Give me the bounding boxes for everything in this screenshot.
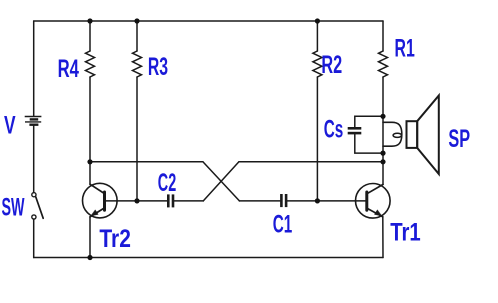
switch SW xyxy=(32,193,43,220)
wire R3 bottom to Tr2 base node xyxy=(136,77,138,201)
battery V xyxy=(25,117,42,125)
wire battery to switch xyxy=(33,126,35,193)
wire R1 top lead xyxy=(382,21,384,51)
junction dot Tr2 base R3 node xyxy=(134,198,139,203)
svg-text:C1: C1 xyxy=(273,210,293,238)
svg-text:R3: R3 xyxy=(148,53,168,81)
resistor R3 xyxy=(133,51,142,77)
resistor R2 xyxy=(313,51,322,77)
speaker terminal hole xyxy=(393,133,401,137)
resistor R4 xyxy=(86,51,95,77)
wire Cs top loop xyxy=(355,116,383,127)
wire cross diagonal lower-left to upper-right xyxy=(203,162,239,201)
svg-text:SP: SP xyxy=(448,125,470,153)
junction dot top rail R2 xyxy=(315,18,320,23)
svg-text:R2: R2 xyxy=(321,51,342,79)
transistor Tr1 xyxy=(356,184,391,219)
wire lower-right through C1 to Tr1 base xyxy=(239,200,280,202)
wire upper-right to Tr1 collector node xyxy=(239,161,383,163)
svg-text:Cs: Cs xyxy=(324,115,344,143)
speaker SP horn xyxy=(417,96,439,175)
speaker SP coil box xyxy=(407,121,418,148)
junction dot top rail R3 xyxy=(134,18,139,23)
wire upper-left from R4 node xyxy=(90,161,203,163)
speaker terminal tab xyxy=(383,122,402,146)
resistor R1 xyxy=(379,51,388,77)
wire left rail upper (top rail to battery) xyxy=(33,21,35,116)
capacitor Cs xyxy=(348,128,362,133)
transistor Tr2 xyxy=(83,183,118,218)
wire Cs bottom loop xyxy=(355,134,383,153)
wire R2 bottom to C1 wire xyxy=(316,77,318,201)
wire R3 top lead xyxy=(136,21,138,51)
svg-text:Tr2: Tr2 xyxy=(99,225,130,253)
capacitor C2 xyxy=(168,194,173,207)
wire R4 bottom to Tr2 collector xyxy=(89,77,91,184)
junction dot Cs bottom node xyxy=(380,151,385,156)
wire Tr2 base lead lower-left y=200.9 with C2 gap xyxy=(105,200,168,202)
junction dot Cs top node xyxy=(380,114,385,119)
svg-text:R4: R4 xyxy=(58,55,79,83)
junction dot top rail R4 xyxy=(87,18,92,23)
junction dot bottom rail Tr2 emitter xyxy=(87,255,92,260)
wire R2 top lead xyxy=(316,21,318,51)
wire switch to bottom rail xyxy=(33,219,35,257)
junction dot Tr1 collector node xyxy=(380,159,385,164)
svg-text:C2: C2 xyxy=(158,169,176,197)
wire R1 bottom to Tr1 collector node xyxy=(382,77,384,184)
capacitor C1 xyxy=(281,194,286,207)
svg-text:SW: SW xyxy=(2,193,25,221)
junction dot R4 cross node xyxy=(87,159,92,164)
wire bottom rail xyxy=(34,257,383,259)
wire top rail xyxy=(34,20,383,22)
svg-text:V: V xyxy=(4,111,16,139)
junction dot R2 C1 node xyxy=(315,198,320,203)
svg-text:R1: R1 xyxy=(395,35,415,63)
wire Tr2 emitter to bottom rail xyxy=(89,217,91,258)
wire Tr1 emitter to bottom rail xyxy=(382,217,384,258)
wire cross diagonal upper-left to lower-right xyxy=(203,162,240,201)
wire R4 top lead xyxy=(89,21,91,51)
svg-text:Tr1: Tr1 xyxy=(390,218,421,246)
